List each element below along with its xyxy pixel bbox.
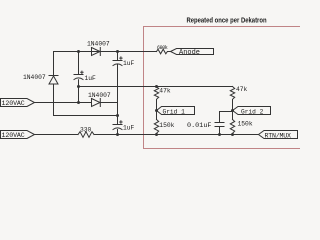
svg-text:47k: 47k <box>236 86 248 93</box>
wire bias line <box>79 86 233 88</box>
wire left vertical upper <box>53 52 55 76</box>
C1 plus mark <box>81 71 83 73</box>
svg-text:1uF: 1uF <box>123 125 135 132</box>
diode D2 1N4007 horizontal mid <box>92 99 118 107</box>
wire top rail <box>54 51 171 53</box>
junction grid1 node <box>155 109 158 112</box>
resistor R 47k stack1 <box>154 87 158 120</box>
repeated-section red box <box>144 27 307 149</box>
resistor R 330 horizontal <box>78 132 94 138</box>
svg-text:330: 330 <box>80 126 92 133</box>
capacitor C2 1uF <box>113 61 122 66</box>
junction rail-bottom-C3 <box>116 133 119 136</box>
svg-text:Grid 2: Grid 2 <box>241 108 264 115</box>
svg-text:1N4007: 1N4007 <box>87 41 110 48</box>
junction x117-lower <box>116 114 119 117</box>
flag Grid 1 <box>157 107 195 115</box>
svg-text:Grid 1: Grid 1 <box>163 108 186 115</box>
resistor R 150k stack1 <box>154 120 158 135</box>
svg-text:0.01uF: 0.01uF <box>187 122 211 130</box>
svg-text:1N4007: 1N4007 <box>88 92 111 99</box>
svg-text:1uF: 1uF <box>85 75 97 82</box>
svg-text:1N4007: 1N4007 <box>23 74 46 81</box>
svg-text:47k: 47k <box>159 88 171 95</box>
svg-text:Repeated once per Dekatron: Repeated once per Dekatron <box>186 17 266 25</box>
svg-text:Anode: Anode <box>179 49 200 57</box>
svg-text:120VAC: 120VAC <box>2 100 25 107</box>
svg-text:680k: 680k <box>157 45 168 51</box>
capacitor C4 0.01uF with wires <box>215 112 233 135</box>
svg-text:RTN/MUX: RTN/MUX <box>265 132 292 139</box>
wire lower-left horizontal <box>54 115 118 117</box>
C2 plus mark <box>120 57 122 59</box>
svg-text:1uF: 1uF <box>123 60 135 67</box>
junction rail-C2 <box>116 50 119 53</box>
flag RTN/MUX <box>259 131 298 139</box>
junction bias-C1 <box>77 85 80 88</box>
svg-text:150k: 150k <box>238 121 253 128</box>
svg-text:150k: 150k <box>159 122 174 129</box>
wire right vertical x117 <box>117 52 119 135</box>
wire C1 branch vertical <box>78 52 80 103</box>
wire AC line A <box>35 102 92 104</box>
junction grid2 node <box>231 109 234 112</box>
svg-text:120VAC: 120VAC <box>2 132 25 139</box>
flag 120VAC bottom <box>1 131 35 139</box>
junction acA-C1 <box>77 101 80 104</box>
resistor R 150k stack2 <box>230 120 234 135</box>
flag 120VAC top <box>1 99 35 107</box>
resistor R 47k stack2 <box>230 87 234 120</box>
C3 plus mark <box>120 121 122 123</box>
flag Anode <box>171 49 214 55</box>
flag Grid 2 <box>233 107 271 115</box>
junction rail-bottom-150k1 <box>155 133 158 136</box>
junction rail-C1 <box>77 50 80 53</box>
diode D3 1N4007 horizontal top <box>92 48 101 56</box>
capacitor C1 1uF <box>74 75 83 80</box>
resistor R 680k horizontal <box>157 49 171 54</box>
junction bias-47k1 <box>155 85 158 88</box>
junction rail-bottom-C4 <box>218 133 221 136</box>
wire bottom rail <box>94 134 259 136</box>
junction rail-bottom-150k2 <box>231 133 234 136</box>
capacitor C3 1uF <box>113 125 122 130</box>
diode D1 1N4007 vertical <box>49 76 58 116</box>
wire AC line B left <box>35 134 79 136</box>
